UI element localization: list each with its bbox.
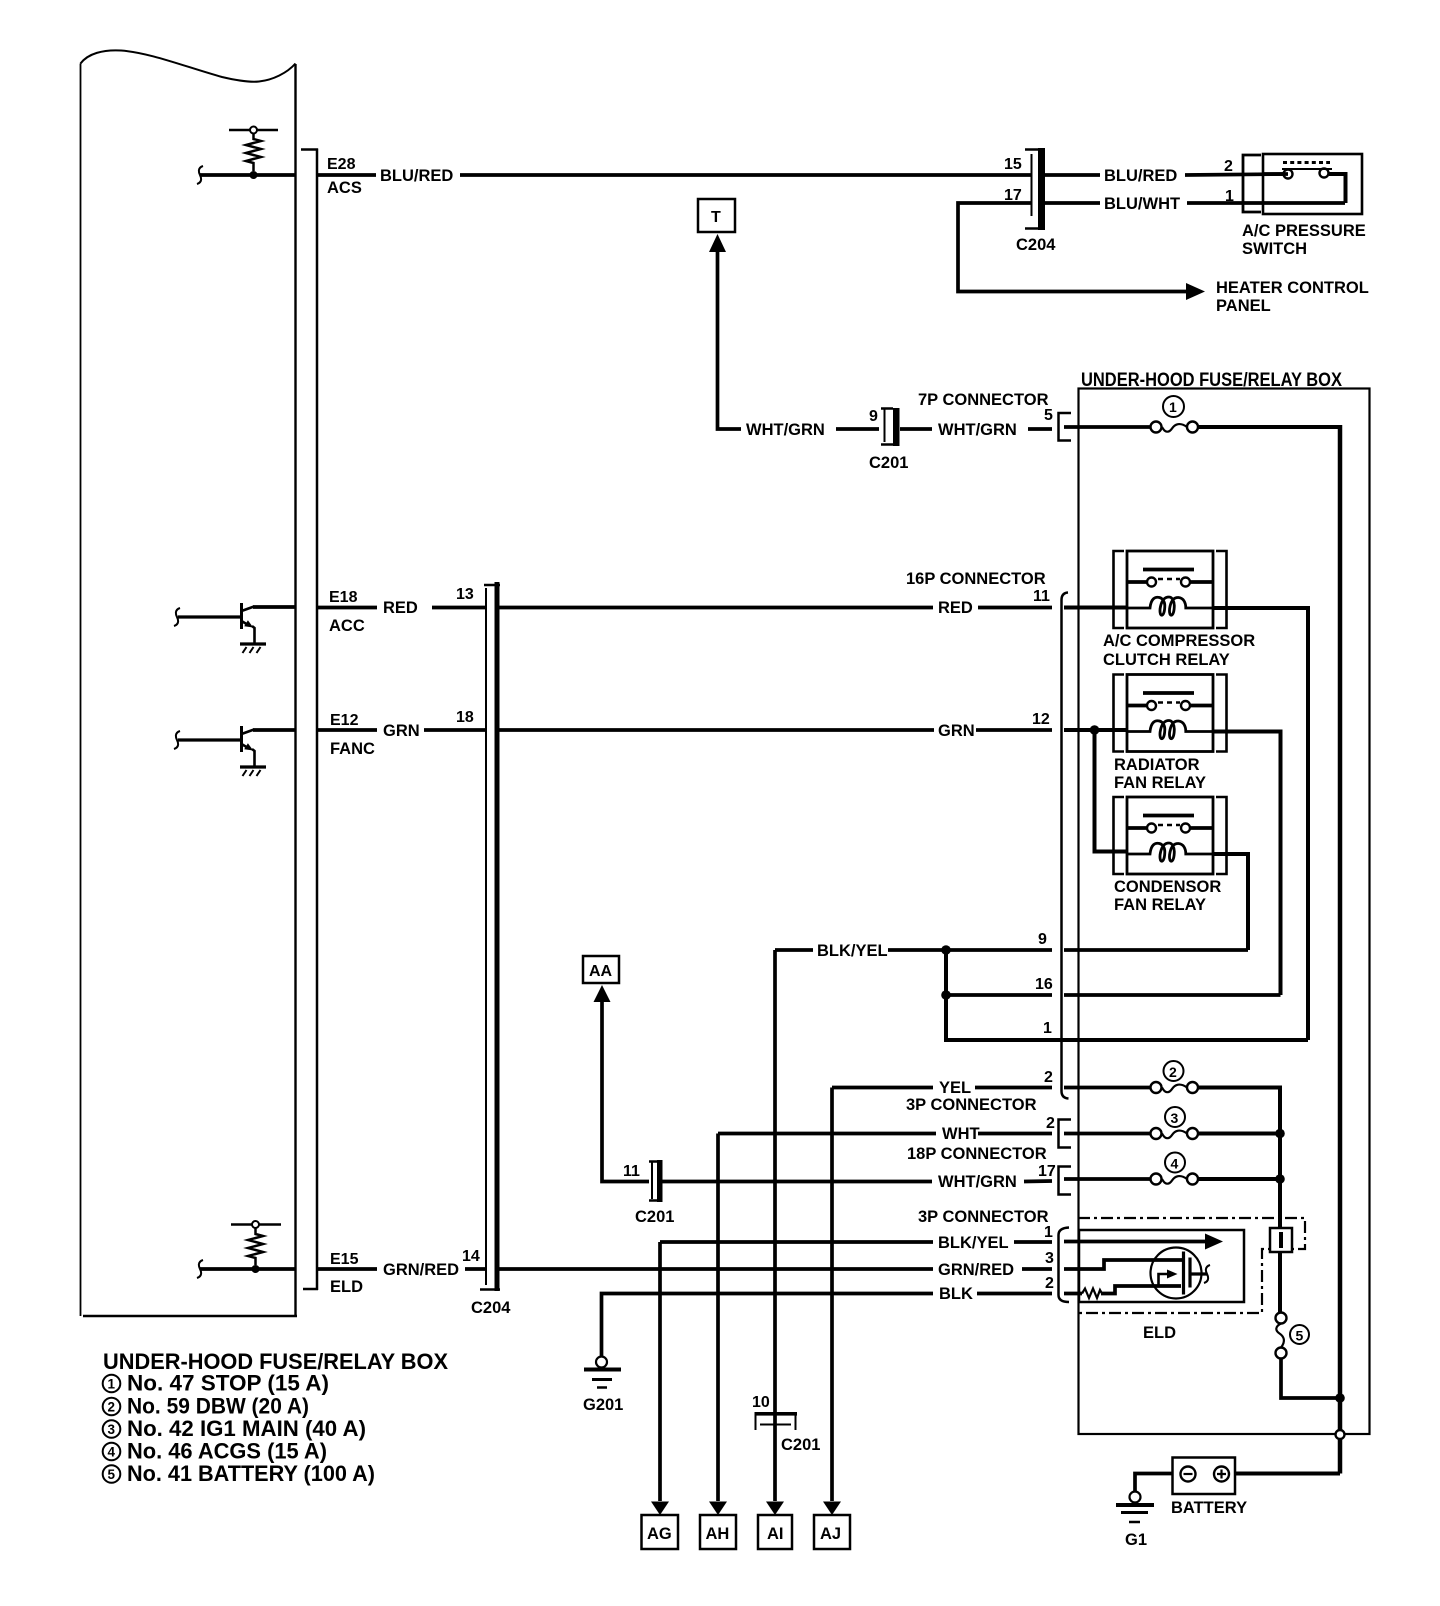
svg-text:1: 1 [108,1377,116,1392]
svg-text:3: 3 [1171,1110,1179,1126]
svg-text:RADIATOR: RADIATOR [1114,756,1200,774]
wire AI with C201 pin 10 connector [752,1394,820,1454]
svg-text:E15: E15 [330,1251,359,1268]
wire fuse 2 to ELD bus [1198,1088,1280,1314]
svg-text:No. 46 ACGS (15 A): No. 46 ACGS (15 A) [127,1439,327,1464]
A/C pressure switch box [1263,154,1362,214]
svg-text:11: 11 [623,1163,640,1180]
svg-text:AA: AA [589,963,613,980]
wire WHT row [718,1132,1052,1136]
under-hood fuse/relay box outline [1079,389,1370,1435]
legend fuse 5 [103,1461,375,1486]
svg-text:YEL: YEL [939,1079,971,1097]
relay A/C compressor clutch: coil [1127,597,1213,615]
svg-text:CONDENSOR: CONDENSOR [1114,878,1221,896]
svg-text:C201: C201 [869,454,908,472]
svg-text:2: 2 [1224,158,1233,175]
relay A/C compressor clutch: contact wires [1127,580,1213,584]
svg-text:E18: E18 [329,589,358,606]
svg-text:1: 1 [1044,1224,1053,1241]
svg-text:WHT: WHT [942,1125,980,1143]
svg-text:11: 11 [1033,588,1050,605]
svg-text:BLU/RED: BLU/RED [380,167,453,185]
wire-break hook at E15 wire end [197,1260,203,1278]
svg-text:WHT/GRN: WHT/GRN [938,421,1017,439]
wire E28 row inside ECM [200,173,295,177]
shunt resistor zigzag in ELD [1082,1289,1102,1299]
svg-text:ACS: ACS [327,179,362,197]
svg-text:T: T [711,209,721,226]
wire GRN/RED long run to 3P pin 3 [500,1267,934,1271]
svg-text:2: 2 [1045,1275,1054,1292]
ELD sensor circle (hall element) [1151,1248,1211,1299]
T box (connector to other sheet) [698,199,735,232]
svg-text:GRN: GRN [938,722,975,740]
svg-text:C204: C204 [1016,236,1056,254]
svg-text:2: 2 [1046,1115,1055,1132]
svg-text:C201: C201 [635,1208,674,1226]
svg-text:9: 9 [869,408,878,425]
pin 5 bracket [1059,413,1072,441]
wire E12 collector to ECM edge [253,728,295,732]
wire fuse 3 to bus junction [1198,1132,1280,1136]
junction dot fuse 4 [1275,1174,1285,1184]
AH box [700,1515,736,1549]
wire fuse 5 to battery bus [1281,1358,1340,1398]
svg-text:1: 1 [1043,1020,1052,1037]
svg-text:17: 17 [1038,1163,1056,1180]
svg-text:GRN/RED: GRN/RED [383,1261,459,1279]
junction dot pin 16 branch [941,990,951,1000]
svg-text:GRN/RED: GRN/RED [938,1261,1014,1279]
arrowhead AI [766,1502,784,1516]
svg-text:3P CONNECTOR: 3P CONNECTOR [906,1096,1037,1114]
svg-text:C204: C204 [471,1299,511,1317]
svg-text:3: 3 [1045,1250,1054,1267]
wire GRN from E12 to C204 [318,728,485,732]
junction dot pin12/condensor branch [1090,725,1100,735]
svg-text:5: 5 [1296,1328,1304,1344]
wire from fuse 1 to right bus [1198,425,1340,429]
wire GRN from C204 to 16P pin 12 [500,728,1053,732]
arrow up into AA box [594,985,611,1002]
arrowhead AH [709,1502,727,1516]
legend fuse 2 [103,1394,309,1419]
connector C204 (main 14P) [471,582,511,1317]
junction dot pin 9 branch [941,945,951,955]
wire battery positive to bus [1235,1472,1340,1476]
svg-text:ELD: ELD [1143,1324,1176,1342]
relay condensor fan: contact bar [1143,814,1194,818]
relay radiator fan: contact bar [1143,691,1194,695]
arrowhead AJ [823,1502,841,1516]
pull-up resistor at pin E28 [229,127,278,180]
svg-text:No. 41 BATTERY (100 A): No. 41 BATTERY (100 A) [127,1461,375,1486]
svg-text:UNDER-HOOD FUSE/RELAY BOX: UNDER-HOOD FUSE/RELAY BOX [1081,370,1342,391]
svg-text:A/C COMPRESSOR: A/C COMPRESSOR [1103,632,1255,650]
svg-text:5: 5 [1044,407,1053,424]
svg-text:C201: C201 [781,1436,820,1454]
svg-text:3: 3 [108,1422,116,1437]
svg-text:ACC: ACC [329,617,365,635]
relay A/C compressor clutch: contact points [1147,578,1156,587]
AA box (destination arrow) [583,956,619,983]
connector C204 pins 15/17 [1004,148,1056,254]
wire YEL row [832,1086,1052,1090]
wire from WHT/GRN row up to T [718,250,742,429]
svg-text:GRN: GRN [383,722,420,740]
svg-text:13: 13 [456,586,474,603]
relay condensor fan: contact wires [1127,826,1213,830]
wire BLK/YEL row (3P pin 1) [660,1240,1052,1244]
svg-text:18P CONNECTOR: 18P CONNECTOR [907,1145,1047,1163]
svg-text:16P CONNECTOR: 16P CONNECTOR [906,570,1046,588]
svg-text:No. 47 STOP (15 A): No. 47 STOP (15 A) [127,1371,329,1396]
AG box [642,1515,679,1549]
main battery bus wire (right vertical) [1338,425,1343,1474]
svg-text:14: 14 [462,1248,480,1265]
relay A/C compressor clutch: dashed actuator link [1158,578,1180,581]
svg-text:No. 42 IG1 MAIN (40 A): No. 42 IG1 MAIN (40 A) [127,1416,366,1441]
AI box [758,1515,792,1549]
svg-text:2: 2 [108,1400,116,1415]
wire pin 16 row [946,993,1281,997]
wire BLU/WHT from C204 pin 17 [958,203,1188,292]
A/C pressure switch connector bracket [1243,155,1261,212]
svg-text:2: 2 [1169,1064,1177,1080]
pin 2 bracket (18P) [1059,1120,1072,1148]
wire AH drop from WHT row [716,1134,720,1502]
wire GRN/RED from E15 to C204 pin 14 [318,1267,486,1271]
wire BLU/RED from E28 to C204 [318,173,1031,177]
svg-text:AI: AI [767,1525,784,1543]
svg-text:12: 12 [1032,711,1050,728]
AJ box [814,1515,850,1549]
wire-break hook at E28 wire end [197,166,203,184]
wire pin 11 to A/C compressor clutch relay [1064,606,1127,610]
relay condensor fan: coil [1127,843,1213,861]
ground G201 [583,1357,623,1415]
svg-text:BLK: BLK [939,1285,973,1303]
relay A/C compressor clutch: connector brackets [1114,551,1227,628]
ECM connector bracket [301,149,318,1291]
ground G1 [1116,1492,1154,1550]
wire RED from E18 to C204 [318,606,485,610]
wire BLK/YEL pin 9 row [775,948,1248,952]
transistor Q2 (FANC driver) [174,726,266,776]
svg-text:No. 59 DBW (20 A): No. 59 DBW (20 A) [127,1394,309,1419]
ECM/PCM torn-page outline [81,50,298,1316]
svg-text:G201: G201 [583,1396,623,1414]
wire AA branch to C201 [602,1000,649,1182]
wire WHT/GRN into fuse box [900,427,1052,431]
wire WHT/GRN row (pin 17) [662,1179,1052,1183]
connector C201 pin 9 [836,408,908,472]
relay condensor fan: contact points [1147,824,1156,833]
arrow up into T box [709,234,726,252]
wire battery negative to G1 [1135,1474,1173,1493]
svg-text:BLK/YEL: BLK/YEL [817,942,888,960]
relay A/C compressor clutch: body box [1127,551,1213,628]
wire BLK row (3P pin 2) into ELD [977,1286,1181,1294]
svg-text:4: 4 [1171,1156,1179,1172]
wire pin1 arrow inside ELD [1064,1240,1207,1244]
fuse 4 No.46 ACGS [1064,1153,1198,1185]
svg-text:7P CONNECTOR: 7P CONNECTOR [918,391,1049,409]
svg-text:AG: AG [647,1525,672,1543]
legend fuse 3 [103,1416,366,1441]
relay radiator fan: dashed actuator link [1158,701,1180,704]
wire E15 row inside ECM [200,1267,295,1271]
svg-text:BLU/RED: BLU/RED [1104,167,1177,185]
ELD dash-dot boundary [1078,1218,1305,1313]
svg-text:9: 9 [1038,931,1047,948]
wire BLU/WHT right of C204 [1045,201,1345,205]
svg-text:FAN RELAY: FAN RELAY [1114,896,1206,914]
relay condensor fan: body box [1127,797,1213,874]
battery [1171,1458,1247,1518]
relay A/C compressor clutch: contact bar [1143,568,1194,572]
wire condensor fan relay coil to pin 9 bus [1213,854,1248,950]
legend fuse 1 [103,1371,329,1396]
ELD inner box [1079,1230,1244,1302]
svg-text:FAN RELAY: FAN RELAY [1114,774,1206,792]
svg-text:A/C PRESSURE: A/C PRESSURE [1242,222,1366,240]
relay condensor fan: connector brackets [1114,797,1227,874]
wire E18 collector to ECM edge [253,605,295,609]
svg-text:3P CONNECTOR: 3P CONNECTOR [918,1208,1049,1226]
svg-text:ELD: ELD [330,1278,363,1296]
ELD connector square on bus [1270,1228,1292,1252]
wire BLU/RED from C204 to A/C pressure switch [1045,174,1288,175]
svg-text:G1: G1 [1125,1531,1147,1549]
svg-text:FANC: FANC [330,740,375,758]
svg-text:WHT/GRN: WHT/GRN [746,421,825,439]
svg-text:1: 1 [1225,188,1234,205]
wire fuse 4 to bus junction [1198,1177,1280,1181]
junction dot fuse 3 [1275,1129,1285,1139]
fuse 5 No.41 BATTERY [1276,1313,1310,1359]
svg-text:RED: RED [938,599,973,617]
branch bus down from pin 9 [946,950,1308,1040]
fuse 1 No.47 STOP [1064,396,1198,433]
3P connector bracket [1059,1228,1070,1303]
transistor Q1 (ACS driver) [174,603,266,653]
arrowhead AG [651,1502,669,1516]
wire radiator fan relay coil to pin 16 bus [1213,732,1281,996]
svg-text:5: 5 [108,1467,116,1482]
svg-text:BATTERY: BATTERY [1171,1499,1247,1517]
wire AG drop from BLK/YEL row [658,1242,662,1501]
switch contacts [1263,163,1346,204]
relay radiator fan: connector brackets [1114,675,1227,752]
wire pin 12 to radiator fan relay coil [1064,728,1127,732]
svg-text:15: 15 [1004,156,1022,173]
svg-text:4: 4 [108,1445,116,1460]
svg-text:2: 2 [1044,1069,1053,1086]
wire pin 1 row gap fill [1052,1038,1064,1042]
wire BLK to G201 [602,1294,934,1358]
svg-text:AJ: AJ [820,1525,841,1543]
wire AJ drop from YEL row [830,1088,834,1502]
svg-text:E28: E28 [327,156,356,173]
svg-text:AH: AH [706,1525,730,1543]
wire AI drop from pin 9 [773,950,777,1501]
wire A/C clutch relay coil to pin 1 bus [1213,608,1308,1040]
svg-text:HEATER CONTROL: HEATER CONTROL [1216,279,1369,297]
relay radiator fan: coil [1127,721,1213,739]
pass-through ring at box edge [1336,1430,1345,1439]
svg-text:CLUTCH RELAY: CLUTCH RELAY [1103,651,1230,669]
relay radiator fan: contact points [1147,701,1156,710]
relay radiator fan: body box [1127,675,1213,752]
wire GRN/RED row (3P pin 3) into ELD gate [1022,1260,1184,1269]
svg-text:16: 16 [1035,976,1053,993]
junction dot battery bus [1335,1393,1345,1403]
svg-text:BLU/WHT: BLU/WHT [1104,195,1180,213]
resistor at pin E15 [231,1221,281,1273]
svg-text:PANEL: PANEL [1216,297,1271,315]
svg-text:SWITCH: SWITCH [1242,240,1307,258]
relay condensor fan: dashed actuator link [1158,824,1180,827]
arrowhead ELD drive signal [1205,1234,1223,1250]
pin 17 bracket [1059,1167,1072,1195]
arrow to heater control panel [1186,283,1205,300]
16P connector bracket [1062,593,1069,1099]
relay radiator fan: contact wires [1127,704,1213,708]
svg-text:WHT/GRN: WHT/GRN [938,1173,1017,1191]
wire RED from C204 to 16P pin 11 [500,606,1053,610]
fuse 3 No.42 IG1 MAIN [1064,1107,1198,1139]
svg-text:RED: RED [383,599,418,617]
legend fuse 4 [103,1439,327,1464]
svg-text:18: 18 [456,709,474,726]
connector C201 pin 11 [623,1160,674,1226]
svg-text:E12: E12 [330,712,359,729]
branch wire down to condensor fan relay coil [1095,730,1128,852]
fuse 2 No.59 DBW [1064,1061,1198,1093]
svg-text:1: 1 [1169,399,1177,415]
svg-text:BLK/YEL: BLK/YEL [938,1234,1009,1252]
svg-text:10: 10 [752,1394,770,1411]
